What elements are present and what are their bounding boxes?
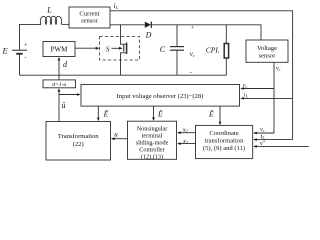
svg-text:sensor: sensor bbox=[81, 18, 99, 25]
wire diode to corner, down to voltage sensor bbox=[151, 25, 261, 40]
svg-text:Ê: Ê bbox=[157, 108, 163, 118]
svg-text:terminal: terminal bbox=[142, 133, 163, 140]
wire u controller to transformation bbox=[112, 138, 128, 140]
wire x2 bbox=[178, 143, 195, 145]
wire mosfet source leg bbox=[121, 53, 127, 75]
current sensor box bbox=[69, 7, 110, 28]
CPL leg bbox=[225, 25, 227, 75]
svg-text:(5), (9) and (11): (5), (9) and (11) bbox=[203, 145, 245, 152]
svg-text:vc: vc bbox=[243, 82, 248, 89]
switch dashed box bbox=[100, 37, 140, 61]
wire E-hat arrow 1 bbox=[97, 106, 99, 120]
capacitor C leg bottom bbox=[176, 51, 178, 76]
svg-text:Voltage: Voltage bbox=[257, 45, 277, 52]
svg-text:sensor: sensor bbox=[259, 53, 277, 60]
wire vc branch to observer bbox=[242, 88, 274, 90]
arrowhead v* into coord bbox=[253, 145, 257, 148]
arrowhead x1 bbox=[177, 131, 181, 134]
svg-text:E: E bbox=[2, 46, 9, 56]
svg-text:(12),(13): (12),(13) bbox=[141, 154, 163, 161]
wire E-hat arrow 2 bbox=[153, 106, 155, 120]
arrowhead u-hat into d box bbox=[58, 88, 61, 91]
wire mosfet drain leg bbox=[121, 25, 127, 44]
svg-text:vc: vc bbox=[260, 126, 265, 133]
svg-text:-: - bbox=[190, 69, 192, 76]
wire battery top to rail bbox=[20, 24, 42, 50]
arrowhead vc into observer bbox=[240, 87, 244, 90]
svg-text:Ê: Ê bbox=[103, 109, 109, 119]
wire x1 bbox=[178, 132, 195, 134]
svg-text:transformation: transformation bbox=[205, 137, 245, 144]
arrowhead vc into coord bbox=[253, 132, 257, 135]
arrowhead iL into coord bbox=[253, 138, 257, 141]
svg-text:(22): (22) bbox=[73, 141, 84, 148]
wire coil to current sensor bbox=[62, 23, 69, 25]
svg-text:Input voltage observer (23)−(2: Input voltage observer (23)−(28) bbox=[117, 93, 204, 100]
svg-text:+: + bbox=[191, 26, 195, 32]
battery E plates bbox=[12, 49, 27, 51]
svg-text:u: u bbox=[114, 131, 118, 139]
svg-text:L: L bbox=[46, 5, 52, 14]
wire u-hat from transformation bbox=[59, 95, 79, 122]
svg-text:sliding-mode: sliding-mode bbox=[136, 140, 169, 147]
wire u-hat up to d=1-u bbox=[58, 90, 60, 95]
wire vc vertical from voltage sensor bbox=[254, 62, 274, 133]
wire iL corner into coord bbox=[254, 139, 293, 141]
svg-text:vc: vc bbox=[276, 65, 281, 72]
voltage sensor box bbox=[246, 40, 288, 62]
svg-text:d=1-u: d=1-u bbox=[52, 82, 66, 88]
capacitor C plates bbox=[170, 46, 184, 48]
svg-text:PWM: PWM bbox=[51, 45, 69, 53]
svg-text:Transformation: Transformation bbox=[58, 133, 99, 140]
diode D bbox=[145, 22, 151, 28]
svg-text:-: - bbox=[25, 55, 27, 61]
svg-text:iL: iL bbox=[244, 92, 249, 99]
arrowhead iL into observer bbox=[240, 97, 244, 100]
svg-text:x1: x1 bbox=[182, 127, 188, 134]
d=1-u box bbox=[43, 80, 76, 88]
svg-text:Ê: Ê bbox=[208, 109, 214, 119]
PWM box bbox=[43, 42, 75, 57]
transistor Q channel bar bbox=[126, 43, 128, 54]
wire PWM to S bbox=[75, 47, 97, 49]
svg-text:û: û bbox=[62, 101, 66, 110]
arrowhead u-hat into observer bbox=[77, 93, 81, 96]
wire E-hat arrow 3 bbox=[219, 106, 221, 124]
transistor Q gate bar bbox=[123, 45, 125, 52]
coordinate box bbox=[196, 125, 253, 158]
CPL load rect bbox=[224, 44, 228, 59]
svg-text:S: S bbox=[106, 45, 110, 54]
arrowhead d into PWM bbox=[58, 57, 61, 60]
arrowhead S gate bbox=[119, 47, 123, 50]
svg-text:Controller: Controller bbox=[139, 147, 164, 154]
wire battery bottom bbox=[19, 54, 21, 75]
svg-text:x2: x2 bbox=[182, 138, 189, 145]
observer box bbox=[81, 85, 240, 107]
arrowhead E3 bbox=[219, 122, 222, 125]
wire S to gate bbox=[112, 47, 120, 49]
svg-text:D: D bbox=[145, 31, 152, 40]
controller box bbox=[128, 121, 177, 159]
bottom rail bbox=[20, 74, 227, 76]
inductor L bbox=[40, 16, 61, 24]
svg-text:Current: Current bbox=[79, 10, 99, 17]
wire iL branch to observer bbox=[242, 97, 293, 99]
wire iL sensor line bbox=[110, 11, 293, 140]
wire power rail to diode bbox=[110, 24, 145, 26]
arrowhead u into transformation bbox=[111, 137, 115, 140]
svg-text:CPL: CPL bbox=[206, 45, 220, 54]
wire d to PWM bbox=[58, 58, 60, 80]
arrowhead x2 bbox=[177, 142, 181, 145]
arrowhead E1 bbox=[97, 118, 100, 121]
capacitor C leg top bbox=[176, 25, 178, 46]
svg-text:Nonsingular: Nonsingular bbox=[137, 126, 168, 133]
svg-text:C: C bbox=[160, 45, 166, 54]
svg-text:Coordinate: Coordinate bbox=[209, 130, 238, 137]
arrowhead PWM to S bbox=[96, 47, 100, 50]
wire v* reference line bbox=[254, 145, 309, 147]
arrowhead E2 bbox=[152, 117, 155, 120]
transformation box bbox=[46, 122, 111, 161]
